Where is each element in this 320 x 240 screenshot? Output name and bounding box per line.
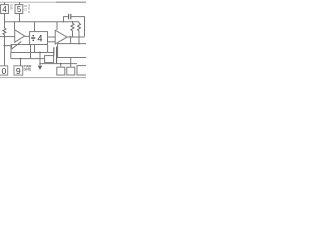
wire: div4 right edge down to lower bus xyxy=(47,45,49,53)
svg-text:c1: c1 xyxy=(24,7,28,11)
potentiometer wiper arrow xyxy=(12,42,22,49)
wire: bottom bus y63.5 xyxy=(40,63,77,65)
potentiometer VR1 body xyxy=(11,45,31,53)
op-amp U2 xyxy=(55,30,67,44)
pin box 4 xyxy=(1,5,9,14)
node: cap branch junction xyxy=(63,21,65,23)
pin box 5 xyxy=(15,5,23,14)
wire: down to pin 9 xyxy=(20,59,22,66)
wire: horizontal oscillator bus xyxy=(5,21,80,23)
pin box 10 xyxy=(0,66,8,75)
resistor R1 xyxy=(71,23,74,31)
divider block /4 xyxy=(30,32,48,45)
wire: div4 to U2 second input xyxy=(48,41,56,43)
wire: cap C1 right to corner and down xyxy=(71,17,85,37)
wire: U1 output to div4 xyxy=(25,35,30,37)
wire: pin4 down to bus and resistor R3 xyxy=(4,14,6,29)
op-amp U1 xyxy=(15,30,25,42)
wire: pot bottom-left down to gnd bus xyxy=(10,53,12,59)
piezo transducer BZ1 xyxy=(58,44,87,58)
wire: U2 output rail xyxy=(67,36,85,38)
wire: bus down to opamp U1 input xyxy=(14,22,16,30)
node: junction above pin 9 xyxy=(20,58,22,60)
resistor R3 (left vertical) xyxy=(3,28,6,35)
svg-text:GND: GND xyxy=(24,68,32,72)
capacitor C2 plate 1 xyxy=(53,47,55,55)
wire: bus down to resistor R2 xyxy=(78,22,80,24)
wire: piezo bottom to bus xyxy=(70,58,72,64)
ground symbol xyxy=(38,66,42,70)
frame bottom border xyxy=(0,77,86,79)
wire: R3 down to junction and pin10 xyxy=(4,35,6,66)
wire: pin5 down to bus xyxy=(19,14,21,22)
node: junction at R3 bottom xyxy=(4,45,6,47)
node: junction x40 on mid bus xyxy=(39,52,41,54)
svg-text:9: 9 xyxy=(16,66,21,76)
wire: pot right edge down xyxy=(30,53,32,59)
svg-text:c: c xyxy=(28,10,30,14)
frame top border xyxy=(0,1,86,3)
pin box C xyxy=(77,66,87,75)
node: output junction xyxy=(70,36,72,38)
pin box B xyxy=(67,67,75,75)
node: R3 column crossing xyxy=(4,36,5,37)
pin box 5 top tick wire xyxy=(19,2,21,4)
wire: lower-left bus y58.5 xyxy=(11,58,45,60)
svg-text:0: 0 xyxy=(2,66,7,76)
wire: tick above box A xyxy=(60,64,62,68)
wire: x40 down to bottom bus and ground xyxy=(39,53,41,66)
node: bottom bus left end xyxy=(39,63,41,65)
wire: div4 output to opamp U2 input xyxy=(48,36,56,38)
pin box 9 xyxy=(14,66,23,75)
pin box 4 top tick wire xyxy=(4,2,6,4)
svg-text:4: 4 xyxy=(37,34,42,44)
capacitor C2 plate 2 xyxy=(56,47,58,64)
wire: bus down to resistor R1 xyxy=(72,22,74,24)
frame top border right darker segment xyxy=(56,1,86,3)
wire: bus up to cap C1 branch xyxy=(64,17,69,22)
wire: output down to piezo top xyxy=(70,37,72,44)
resistor R2 xyxy=(78,23,81,31)
wire: div4 bottom tie xyxy=(34,45,36,53)
wire: bus down to opamp U2 top xyxy=(56,22,58,30)
svg-text:rb: rb xyxy=(10,7,13,11)
node: R1 top junction xyxy=(72,21,73,22)
wire: junction to wiper xyxy=(5,46,12,49)
divider label division sign xyxy=(31,35,35,41)
node: junction above box A xyxy=(60,63,62,65)
wire: bus down to div4 box top xyxy=(34,22,36,32)
wire: input from left edge to U1 xyxy=(0,36,15,38)
svg-text:5: 5 xyxy=(17,5,22,14)
wire: R2 bottom down to piezo top xyxy=(78,31,80,44)
wire: tick above box B xyxy=(70,64,72,68)
component box under C2 xyxy=(45,56,54,63)
pin box A xyxy=(57,67,65,75)
wire: R1 bottom to output rail xyxy=(72,31,74,37)
svg-text:4: 4 xyxy=(2,5,7,14)
wire: mid bus y52.5 xyxy=(11,52,54,54)
capacitor C1 xyxy=(69,14,71,19)
node: piezo feedback tap xyxy=(78,43,80,45)
